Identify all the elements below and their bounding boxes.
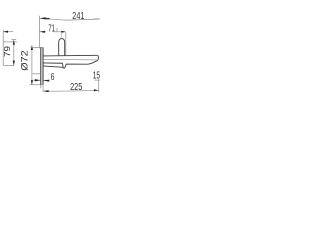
spout underside sag curve [43,66,63,67]
left extension line (knob collar) [3,41,17,43]
arrow 225 right [94,89,99,91]
bath spout dimension drawing [0,0,100,100]
svg-text:79: 79 [2,46,12,57]
arrow 241 left [40,17,46,19]
dimension line 71 left part [40,31,46,33]
svg-text:241: 241 [72,11,85,22]
svg-text:6: 6 [51,72,55,83]
dimension line 71 right part [55,31,66,33]
svg-text:71: 71 [48,24,55,35]
arrow 71 right [61,31,65,33]
spout body middle line [43,58,97,60]
extension line plate bottom [30,84,43,86]
arrow 79 top [13,40,15,45]
extension line plate top [30,47,42,49]
aerator notch and underside to tip [63,61,98,68]
diverter knob [59,39,65,56]
arrow 225 left [44,90,49,92]
svg-text:15: 15 [93,71,100,82]
svg-text:Ø72: Ø72 [19,50,30,70]
top-left small dimension line [3,31,13,33]
arrow 241 right [94,18,100,20]
left auxiliary vertical line [2,30,4,65]
dimension 15 line [95,79,100,81]
dimension 6 right arrow [43,79,48,81]
spout nose [97,55,98,60]
spout body lower line [43,62,62,64]
dimension line 79 [13,40,15,65]
dimension line diameter 72 [31,45,33,85]
spout body top line [43,54,97,57]
svg-text:225: 225 [70,82,83,93]
bottom extension line for 79 [3,64,14,66]
extension below plate left [40,85,42,89]
extension vertical at tip [98,79,100,92]
extension vertical right of 71 [65,32,67,55]
top-left arrow [3,31,8,33]
wall plate left face [40,47,42,84]
dimension line 241 [40,18,100,20]
arrow 79 bottom [13,61,15,66]
wall plate right face [42,47,44,84]
extension line left of plate [32,73,40,75]
dimension line 225 [43,89,98,92]
arrow d72 bottom [31,80,33,85]
small tick above knob [56,28,58,31]
top extension vertical at wall [38,16,40,48]
faint extension to knob top [61,32,63,38]
extension below plate right [42,85,44,92]
dimension 6 left arrow [33,79,41,81]
arrow 71 left [40,31,45,33]
top tick for 79 (knob top extension) [12,39,17,41]
arrow d72 top [31,45,33,50]
